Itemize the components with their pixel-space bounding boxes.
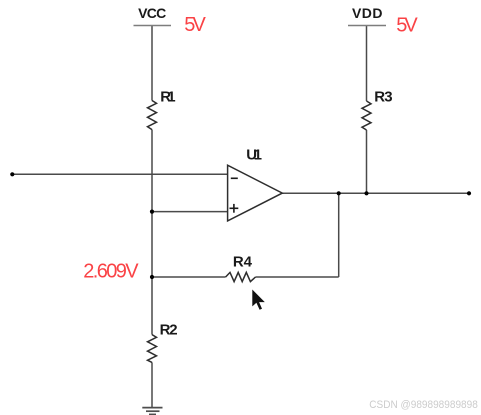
svg-text:R3: R3 bbox=[374, 88, 392, 105]
svg-text:R4: R4 bbox=[233, 253, 253, 270]
svg-text:VCC: VCC bbox=[138, 5, 166, 21]
svg-text:R1: R1 bbox=[160, 89, 175, 106]
svg-text:5V: 5V bbox=[184, 14, 206, 36]
svg-text:CSDN @989898989898: CSDN @989898989898 bbox=[369, 399, 478, 411]
svg-text:VDD: VDD bbox=[352, 5, 383, 21]
svg-text:5V: 5V bbox=[396, 15, 418, 37]
svg-text:R2: R2 bbox=[160, 322, 178, 339]
svg-text:2.609V: 2.609V bbox=[83, 261, 139, 283]
svg-text:U1: U1 bbox=[246, 146, 262, 163]
